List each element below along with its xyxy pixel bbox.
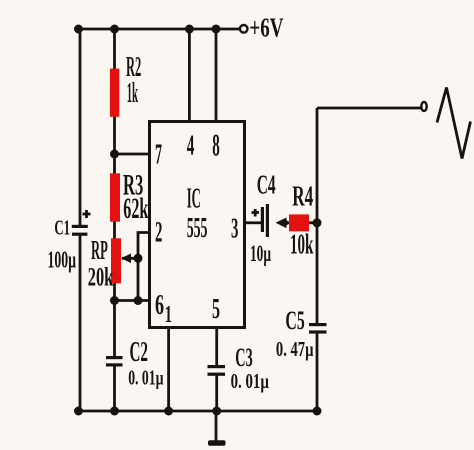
svg-text:6: 6 [155, 289, 164, 321]
svg-text:IC: IC [187, 184, 201, 215]
svg-text:C1: C1 [54, 215, 70, 239]
svg-text:C4: C4 [257, 169, 276, 199]
svg-text:C2: C2 [130, 337, 149, 368]
svg-text:1: 1 [165, 302, 172, 328]
svg-text:C3: C3 [235, 342, 252, 372]
svg-text:10k: 10k [290, 228, 314, 260]
svg-text:3: 3 [231, 212, 238, 244]
svg-text:RP: RP [91, 235, 108, 265]
svg-text:5: 5 [212, 293, 220, 325]
svg-text:1k: 1k [127, 77, 139, 109]
svg-text:0. 01µ: 0. 01µ [231, 369, 270, 393]
svg-text:2: 2 [155, 216, 162, 249]
svg-text:4: 4 [187, 129, 195, 161]
svg-text:0. 01µ: 0. 01µ [128, 366, 164, 390]
svg-text:62k: 62k [123, 192, 148, 225]
svg-text:7: 7 [155, 140, 162, 171]
svg-text:R4: R4 [292, 182, 313, 213]
svg-text:10µ: 10µ [250, 241, 271, 267]
svg-text:C5: C5 [285, 305, 304, 335]
svg-text:+6V: +6V [249, 13, 283, 43]
svg-text:20k: 20k [88, 262, 114, 291]
svg-text:555: 555 [187, 213, 208, 244]
svg-text:0. 47µ: 0. 47µ [276, 337, 314, 361]
svg-text:8: 8 [212, 127, 220, 163]
svg-text:100µ: 100µ [48, 247, 77, 273]
